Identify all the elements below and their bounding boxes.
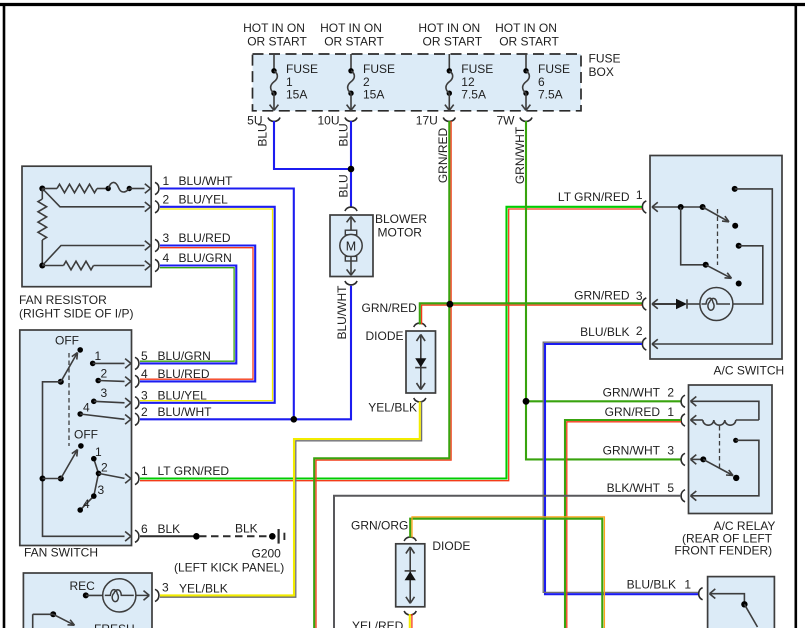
wire BLK (fan switch pin6)	[140, 535, 196, 537]
wire GRN/RED branch to A/C switch pin3	[449, 302, 642, 304]
svg-text:GRN/RED: GRN/RED	[605, 405, 661, 419]
connector 5U	[247, 114, 280, 128]
wire BLU/YEL	[140, 207, 275, 403]
wire YEL/BLK (diode D1 to REC pin3)	[160, 402, 420, 596]
wire BLU/GRN	[140, 266, 236, 364]
label HOT IN ON OR START (col 3)	[418, 21, 482, 49]
svg-text:7.5A: 7.5A	[538, 87, 563, 101]
svg-text:BLU/WHT: BLU/WHT	[158, 405, 213, 419]
svg-text:3: 3	[162, 581, 169, 595]
fuse 6 (7.5A)	[522, 54, 570, 110]
wire BLU/WHT (motor, resistor pin1, fan switch pin2)	[160, 189, 351, 420]
svg-text:OR START: OR START	[423, 35, 483, 49]
svg-text:6: 6	[141, 522, 148, 536]
svg-text:1: 1	[163, 174, 170, 188]
svg-text:7.5A: 7.5A	[461, 87, 486, 101]
svg-text:7W: 7W	[497, 114, 516, 128]
svg-text:BLU/YEL: BLU/YEL	[179, 192, 229, 206]
REC switch box	[23, 573, 227, 628]
svg-text:4: 4	[163, 251, 170, 265]
svg-text:GRN/ORG: GRN/ORG	[351, 519, 408, 533]
svg-text:BLU: BLU	[337, 174, 351, 197]
svg-text:3: 3	[98, 483, 105, 497]
svg-text:4: 4	[141, 367, 148, 381]
svg-text:HOT IN ON: HOT IN ON	[243, 21, 305, 35]
wire BLK dashed to G200	[199, 535, 270, 537]
svg-text:OR START: OR START	[247, 35, 307, 49]
svg-text:17U: 17U	[416, 114, 438, 128]
svg-text:YEL/BLK: YEL/BLK	[368, 400, 417, 414]
svg-text:3: 3	[636, 289, 643, 303]
svg-text:HOT IN ON: HOT IN ON	[418, 21, 480, 35]
A/C compressor box	[699, 577, 775, 628]
wire YEL/RED (diode D2 bottom)	[409, 614, 411, 628]
svg-text:2: 2	[163, 192, 170, 206]
svg-text:2: 2	[101, 461, 108, 475]
svg-text:BLU/RED: BLU/RED	[158, 367, 210, 381]
fuse 2 (15A)	[347, 54, 395, 110]
fan resistor	[19, 166, 233, 320]
svg-text:3: 3	[101, 386, 108, 400]
blower motor	[330, 207, 427, 285]
ground G200	[174, 529, 284, 575]
svg-text:HOT IN ON: HOT IN ON	[495, 21, 557, 35]
svg-text:4: 4	[83, 401, 90, 415]
svg-text:3: 3	[667, 443, 674, 457]
A/C relay	[674, 385, 775, 558]
svg-text:GRN/WHT: GRN/WHT	[513, 126, 527, 184]
svg-text:LT GRN/RED: LT GRN/RED	[158, 464, 230, 478]
label HOT IN ON OR START (col 2)	[320, 21, 384, 49]
wire BLU from fuse 2 (10U) to blower motor	[350, 121, 352, 208]
diode D1	[365, 323, 435, 402]
node BLK junction	[193, 533, 200, 540]
svg-text:1: 1	[141, 464, 148, 478]
wire GRN/RED (relay pin1)	[565, 420, 681, 628]
diode D2	[396, 537, 471, 615]
svg-text:GRN/RED: GRN/RED	[436, 128, 450, 184]
svg-text:5: 5	[667, 481, 674, 495]
svg-text:BLU/BLK: BLU/BLK	[580, 325, 629, 339]
svg-text:5: 5	[141, 349, 148, 363]
node BLU/WHT junction	[291, 416, 298, 423]
svg-text:GRN/RED: GRN/RED	[574, 288, 630, 302]
svg-text:1: 1	[684, 578, 691, 592]
svg-text:3: 3	[141, 388, 148, 402]
A/C switch	[636, 156, 784, 378]
fuse box	[253, 52, 621, 111]
svg-text:BLU/BLK: BLU/BLK	[627, 578, 676, 592]
wire GRN/WHT (fuse 6 / 7W)	[526, 121, 681, 459]
svg-text:BOX: BOX	[589, 65, 614, 79]
svg-text:BLU/YEL: BLU/YEL	[158, 388, 208, 402]
svg-text:BLU/GRN: BLU/GRN	[179, 251, 232, 265]
svg-text:1: 1	[95, 445, 102, 459]
connector 17U	[416, 114, 456, 128]
svg-text:15A: 15A	[363, 87, 384, 101]
svg-text:FRONT FENDER): FRONT FENDER)	[674, 544, 772, 558]
svg-text:(LEFT KICK PANEL): (LEFT KICK PANEL)	[174, 561, 284, 575]
svg-text:OR START: OR START	[324, 35, 384, 49]
svg-text:FAN SWITCH: FAN SWITCH	[24, 546, 98, 560]
svg-text:2: 2	[141, 405, 148, 419]
svg-text:1: 1	[667, 405, 674, 419]
label HOT IN ON OR START (col 4)	[495, 21, 559, 49]
svg-text:LT GRN/RED: LT GRN/RED	[558, 190, 630, 204]
svg-text:REC: REC	[70, 579, 96, 593]
svg-text:DIODE: DIODE	[365, 329, 403, 343]
svg-text:BLU: BLU	[337, 123, 351, 146]
svg-text:OR START: OR START	[499, 35, 559, 49]
node BLU junction	[348, 166, 355, 173]
svg-text:BLK: BLK	[235, 521, 258, 535]
svg-text:BLU: BLU	[256, 123, 270, 146]
svg-text:FRESH: FRESH	[94, 622, 135, 628]
svg-text:DIODE: DIODE	[432, 539, 470, 553]
svg-text:BLOWER: BLOWER	[375, 212, 427, 226]
wire GRN/RED (fuse 12 / 17U)	[314, 121, 449, 628]
svg-text:3: 3	[163, 231, 170, 245]
wire BLK/WHT (relay pin5)	[334, 496, 681, 628]
svg-text:OFF: OFF	[55, 334, 79, 348]
wire BLU/RED	[140, 246, 255, 382]
label HOT IN ON OR START (col 1)	[243, 21, 307, 49]
svg-text:BLU/WHT: BLU/WHT	[179, 174, 234, 188]
svg-text:BLK: BLK	[158, 522, 181, 536]
wire GRN/ORG (diode D2 top)	[410, 519, 602, 628]
svg-text:OFF: OFF	[74, 428, 98, 442]
wire GRN/WHT branch to relay pin2	[526, 400, 681, 402]
svg-text:2: 2	[636, 324, 643, 338]
svg-text:1: 1	[636, 188, 643, 202]
svg-text:2: 2	[667, 385, 674, 399]
svg-text:M: M	[346, 239, 356, 253]
wire BLU from fuse 1 (5U)	[274, 121, 351, 169]
wire GRN/RED branch to diode D1	[420, 303, 450, 324]
wire BLU/BLK (A/C switch pin2 to compressor box)	[545, 344, 699, 594]
svg-text:G200: G200	[252, 547, 282, 561]
svg-text:A/C SWITCH: A/C SWITCH	[714, 364, 785, 378]
svg-text:15A: 15A	[286, 87, 307, 101]
svg-text:BLU/GRN: BLU/GRN	[158, 349, 211, 363]
wire LT GRN/RED (fan switch pin1 to A/C switch pin1)	[140, 207, 642, 479]
svg-text:1: 1	[95, 349, 102, 363]
svg-text:YEL/BLK: YEL/BLK	[179, 581, 228, 595]
connector 10U	[317, 114, 357, 128]
node GRN/RED junction	[447, 301, 454, 308]
svg-text:4: 4	[83, 497, 90, 511]
node GRN/WHT junction	[523, 398, 530, 405]
svg-text:MOTOR: MOTOR	[378, 226, 423, 240]
svg-text:HOT IN ON: HOT IN ON	[320, 21, 382, 35]
svg-text:GRN/WHT: GRN/WHT	[603, 443, 661, 457]
fan switch	[20, 330, 230, 560]
svg-text:GRN/WHT: GRN/WHT	[603, 385, 661, 399]
fuse 12 (7.5A)	[445, 54, 493, 110]
svg-text:(RIGHT SIDE OF I/P): (RIGHT SIDE OF I/P)	[19, 307, 133, 321]
svg-text:FUSE: FUSE	[589, 52, 621, 66]
svg-text:YEL/RED: YEL/RED	[352, 619, 404, 628]
svg-text:BLU/WHT: BLU/WHT	[335, 285, 349, 340]
svg-text:2: 2	[101, 367, 108, 381]
svg-text:BLU/RED: BLU/RED	[179, 231, 231, 245]
fuse 1 (15A)	[270, 54, 318, 110]
svg-text:FAN RESISTOR: FAN RESISTOR	[19, 293, 107, 307]
svg-text:BLK/WHT: BLK/WHT	[607, 481, 661, 495]
svg-text:GRN/RED: GRN/RED	[362, 301, 418, 315]
connector 7W	[497, 114, 533, 128]
